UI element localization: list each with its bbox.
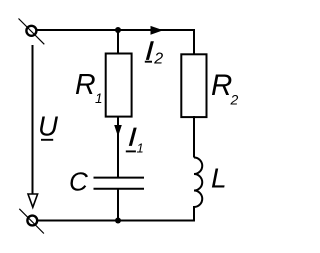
svg-text:L: L xyxy=(211,163,227,194)
svg-text:C: C xyxy=(69,167,88,197)
svg-text:1: 1 xyxy=(137,140,144,155)
svg-text:R: R xyxy=(75,69,96,101)
svg-text:2: 2 xyxy=(153,51,163,68)
svg-text:2: 2 xyxy=(230,92,239,108)
svg-text:R: R xyxy=(211,69,232,102)
svg-text:1: 1 xyxy=(95,91,103,106)
svg-text:U: U xyxy=(38,110,58,141)
